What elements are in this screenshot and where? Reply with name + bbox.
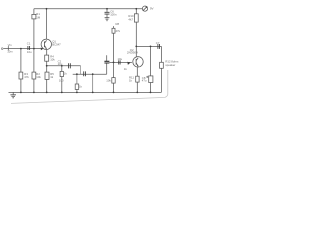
wire electrolytic column x=150.5 [150, 46, 152, 92]
junction interstage-wire [92, 73, 94, 75]
ground rail [9, 91, 162, 93]
wire interstage line y=74.2 [73, 73, 107, 75]
svg-text:Vin: Vin [8, 43, 12, 47]
resistor R8 [112, 28, 115, 33]
junction stage1out-R6 [61, 65, 63, 67]
svg-text:1k: 1k [64, 72, 68, 76]
resistor R6 [60, 71, 63, 76]
junction collector-output [135, 46, 137, 48]
capacitor C5 [119, 60, 120, 64]
svg-text:C7: C7 [156, 41, 160, 45]
ground symbol under C6 [105, 18, 110, 21]
wire Q1 collector [46, 9, 48, 39]
junction rail-C6 [106, 8, 108, 10]
svg-text:1M: 1M [36, 15, 41, 19]
junction ground-wire [92, 92, 94, 94]
junction ground-R9 [113, 92, 115, 94]
junction base-R8R9 [113, 62, 115, 64]
wire Q2 base line y=62.4 [109, 61, 131, 63]
svg-text:100: 100 [59, 78, 64, 82]
svg-text:10k: 10k [106, 78, 111, 82]
capacitor C7 [158, 44, 160, 49]
capacitor C2 [69, 63, 71, 68]
power supply symbol [142, 6, 147, 11]
junction interstage-R7 [76, 73, 78, 75]
capacitor C1 [28, 46, 30, 50]
junction ground-R6 [61, 92, 63, 94]
junction ground-R2 [33, 92, 35, 94]
wire input signal line [3, 48, 43, 50]
resistor R4 emitter [45, 55, 49, 61]
resistor R1 [32, 14, 36, 19]
frame border bottom right [11, 70, 168, 103]
capacitor C4 vertical [104, 55, 109, 74]
wire output line y=46.4 [136, 45, 161, 47]
svg-text:BC547: BC547 [52, 43, 61, 47]
svg-text:47u: 47u [142, 78, 147, 82]
resistor R9 [112, 78, 115, 84]
capacitor C8 electrolytic [149, 76, 153, 83]
junction Q1 emitter tap [46, 65, 48, 67]
svg-text:100n: 100n [110, 13, 117, 17]
wire Q2 collector column x=135.8 [135, 9, 137, 57]
resistor R5 [45, 72, 49, 79]
svg-text:47k: 47k [24, 75, 29, 79]
resistor R7 [75, 84, 79, 89]
wire R3 column x=20.9 [20, 49, 22, 93]
labels (tiny text) [7, 7, 179, 89]
wire Q2 emitter column x=137.1 [136, 67, 138, 92]
base arrow Q1 [41, 48, 44, 51]
junction ground-R7 [76, 92, 78, 94]
svg-text:4k7: 4k7 [128, 17, 133, 21]
junction rail-R10 [135, 8, 137, 10]
wire Q1 emitter column x=46.7 [46, 49, 48, 92]
plus sign C8 [146, 76, 148, 78]
wire R6 column x=61.8 [61, 66, 63, 93]
input terminal J1 [1, 48, 3, 50]
junction rail-Q1 collector [46, 8, 48, 10]
svg-text:R8: R8 [116, 22, 120, 26]
svg-text:10u: 10u [27, 50, 32, 54]
junction ground-R11 [136, 92, 138, 94]
svg-text:2N3904: 2N3904 [127, 50, 138, 54]
junction input-R3 [20, 48, 22, 50]
resistor R10 collector [134, 14, 138, 22]
junction ground-R5 [46, 92, 48, 94]
transistor Q2 [133, 57, 143, 67]
wire R1 column x=33.9 [33, 9, 35, 93]
svg-text:1k: 1k [79, 85, 83, 89]
wire R7 column x=76.9 [76, 74, 78, 92]
wire divider column x=113.5 [113, 26, 115, 92]
svg-text:9V: 9V [150, 7, 154, 11]
junction ground-R3 [20, 92, 22, 94]
svg-text:1k: 1k [124, 67, 128, 71]
capacitor C3 [84, 71, 86, 76]
wire top supply rail [34, 8, 142, 10]
svg-text:10u: 10u [58, 62, 63, 66]
junction ground-C8 [150, 92, 152, 94]
resistor R3 [19, 72, 23, 79]
junction output-C8 [150, 46, 152, 48]
svg-text:10u: 10u [118, 57, 123, 61]
svg-text:10k: 10k [50, 58, 55, 62]
wire stage1 output line y=65.8 [47, 65, 81, 67]
resistor R12 load [160, 62, 164, 68]
resistor R2 [32, 72, 36, 79]
resistor R11 emitter [136, 76, 139, 82]
ground symbol left [10, 92, 16, 97]
wire load column x=161.4 [160, 46, 162, 92]
svg-text:10m: 10m [7, 50, 13, 54]
base arrow Q2 [127, 62, 130, 65]
capacitor C6 rail decoupling [105, 9, 110, 18]
junction input-R1R2 [33, 48, 35, 50]
svg-text:C1: C1 [27, 42, 31, 46]
transistor Q1 [41, 39, 51, 49]
svg-text:speaker: speaker [165, 63, 175, 67]
svg-text:10k: 10k [36, 75, 41, 79]
svg-text:47k: 47k [116, 29, 121, 33]
wire column x=92.7 [92, 74, 94, 92]
